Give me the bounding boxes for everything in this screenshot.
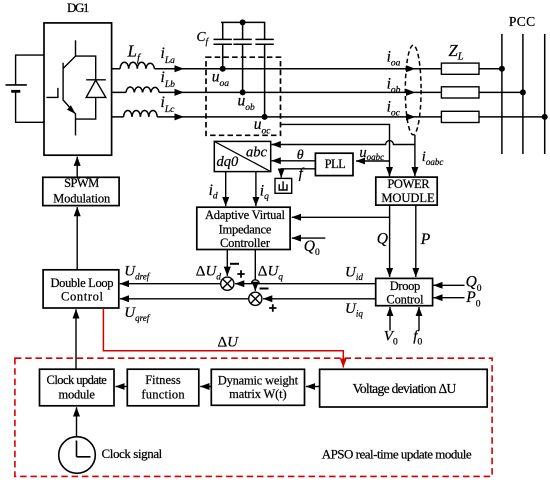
wire dUd [226, 250, 228, 276]
svg-text:APSO real-time update module: APSO real-time update module [322, 446, 472, 461]
wire P [415, 205, 417, 277]
svg-text:Clock update: Clock update [47, 373, 108, 387]
node a junction [220, 66, 226, 72]
wire clock icon to module [76, 407, 78, 436]
inverter U1 box [44, 23, 112, 155]
clock icon [59, 437, 96, 474]
capacitor Cf phase a [214, 22, 232, 68]
arrow ioa [406, 65, 416, 72]
APSO red dashed box [15, 358, 492, 476]
svg-text:function: function [141, 388, 185, 402]
wire f0 [418, 307, 420, 331]
svg-text:Double Loop: Double Loop [50, 276, 113, 290]
wire clock to DLC [75, 309, 77, 369]
svg-text:Dynamic weight: Dynamic weight [218, 373, 299, 387]
svg-text:POWER: POWER [387, 177, 430, 191]
wire fitness to clock module [116, 386, 128, 388]
measurement dashed box [206, 57, 281, 135]
SPWM box [43, 177, 119, 205]
Dynamic weight matrix box [211, 369, 304, 405]
svg-text:Voltage deviation ΔU: Voltage deviation ΔU [353, 381, 457, 396]
svg-text:module: module [59, 388, 96, 402]
wire Uiq row [263, 298, 376, 300]
red wire dU [103, 308, 343, 367]
PLL box [315, 153, 353, 175]
svg-text:Clock signal: Clock signal [102, 446, 163, 461]
Fitness function box [127, 369, 199, 406]
summing node 1 [221, 277, 234, 290]
impedance ZL phase b [441, 87, 479, 98]
svg-text:abc: abc [246, 145, 268, 161]
svg-text:MOUDLE: MOUDLE [381, 191, 435, 205]
svg-text:Q: Q [377, 230, 388, 247]
wire ioabc to abc block with hop [272, 141, 415, 145]
svg-text:Control: Control [61, 290, 104, 304]
capacitor Cf phase b [233, 22, 251, 92]
svg-text:θ: θ [297, 148, 304, 163]
arrow iob [406, 89, 416, 96]
svg-text:Control: Control [386, 292, 424, 306]
wire phase c [157, 116, 545, 118]
node bus c [542, 114, 548, 120]
svg-text:Controller: Controller [220, 236, 271, 250]
wire SPWM to inverter [76, 157, 78, 178]
measuring ellipse [405, 45, 421, 135]
PCC bus line 3 [544, 34, 546, 154]
capacitor bank top rail [221, 21, 265, 23]
svg-text:dq0: dq0 [217, 154, 240, 170]
svg-text:Modulation: Modulation [53, 192, 111, 206]
wire matrix to fitness [200, 386, 211, 388]
POWER MOUDLE box [376, 177, 437, 205]
wire DLC to SPWM [76, 207, 78, 270]
inductor Lf phase c [112, 111, 158, 117]
node bus a [499, 66, 505, 72]
summing node 2 [249, 292, 262, 305]
wire uoabc to PLL [356, 160, 390, 162]
frequency icon box [275, 178, 292, 193]
wire phase a [154, 68, 502, 70]
svg-text:matrix W(t): matrix W(t) [229, 387, 287, 401]
arrow iLb [175, 89, 185, 96]
arrow ioc [406, 113, 416, 120]
node b junction [240, 89, 246, 95]
svg-text:ΔU: ΔU [218, 335, 240, 351]
node c junction [262, 114, 268, 120]
svg-text:Adaptive Virtual: Adaptive Virtual [205, 208, 286, 222]
wire uoabc measurement [281, 124, 390, 176]
wire theta [272, 160, 316, 162]
impedance ZL phase a [441, 63, 479, 74]
svg-text:Fitness: Fitness [145, 373, 181, 387]
arrow iLc [175, 113, 185, 120]
wire Q to controller [292, 216, 390, 218]
Clock update module box [40, 369, 115, 406]
node bus b [520, 89, 526, 95]
wire f [281, 169, 315, 178]
wire dUq with hop [251, 250, 259, 284]
wire voltage to matrix [306, 386, 320, 388]
wire V0 [389, 307, 391, 331]
PCC bus line 1 [501, 34, 503, 154]
transform block dq0/abc [214, 141, 270, 171]
capacitor Cf phase c [255, 22, 273, 117]
sign minus 1 [230, 263, 239, 265]
wire Uqref row [120, 298, 249, 300]
wire Udref row [120, 283, 221, 285]
transistor Q1 (IGBT) [46, 40, 75, 119]
svg-text:Droop: Droop [390, 279, 421, 293]
wire iq [255, 172, 257, 207]
wire ioabc down [414, 135, 416, 176]
impedance ZL phase c [441, 111, 479, 122]
svg-text:SPWM: SPWM [64, 176, 99, 190]
wire Q [389, 205, 391, 277]
wire Q0 droop [434, 284, 465, 286]
svg-text:Impedance: Impedance [219, 223, 272, 237]
svg-text:PLL: PLL [325, 157, 346, 171]
wire id [225, 172, 227, 207]
Droop Control box [376, 278, 433, 305]
Voltage deviation box [320, 369, 488, 407]
arrow iLa [175, 65, 185, 72]
wire P0 droop [434, 297, 465, 299]
inductor Lf phase b [112, 87, 160, 92]
wire Q0 to controller [292, 237, 326, 239]
svg-text:DG1: DG1 [67, 0, 89, 15]
svg-text:PCC: PCC [509, 14, 535, 29]
wire phase b [159, 91, 523, 93]
DC source battery [6, 55, 45, 122]
wire Uid row [235, 283, 376, 285]
svg-text:P: P [420, 231, 431, 248]
inductor Lf phase a [112, 62, 155, 68]
sign plus 1 [237, 270, 244, 277]
PCC bus line 2 [522, 34, 524, 154]
Double Loop Control box [43, 270, 119, 308]
diode D1 [76, 56, 106, 135]
sign plus 2 [269, 304, 276, 311]
controller box Adaptive Virtual Impedance [197, 207, 290, 249]
node rail junction [240, 19, 246, 25]
sign minus 2 [260, 288, 269, 290]
